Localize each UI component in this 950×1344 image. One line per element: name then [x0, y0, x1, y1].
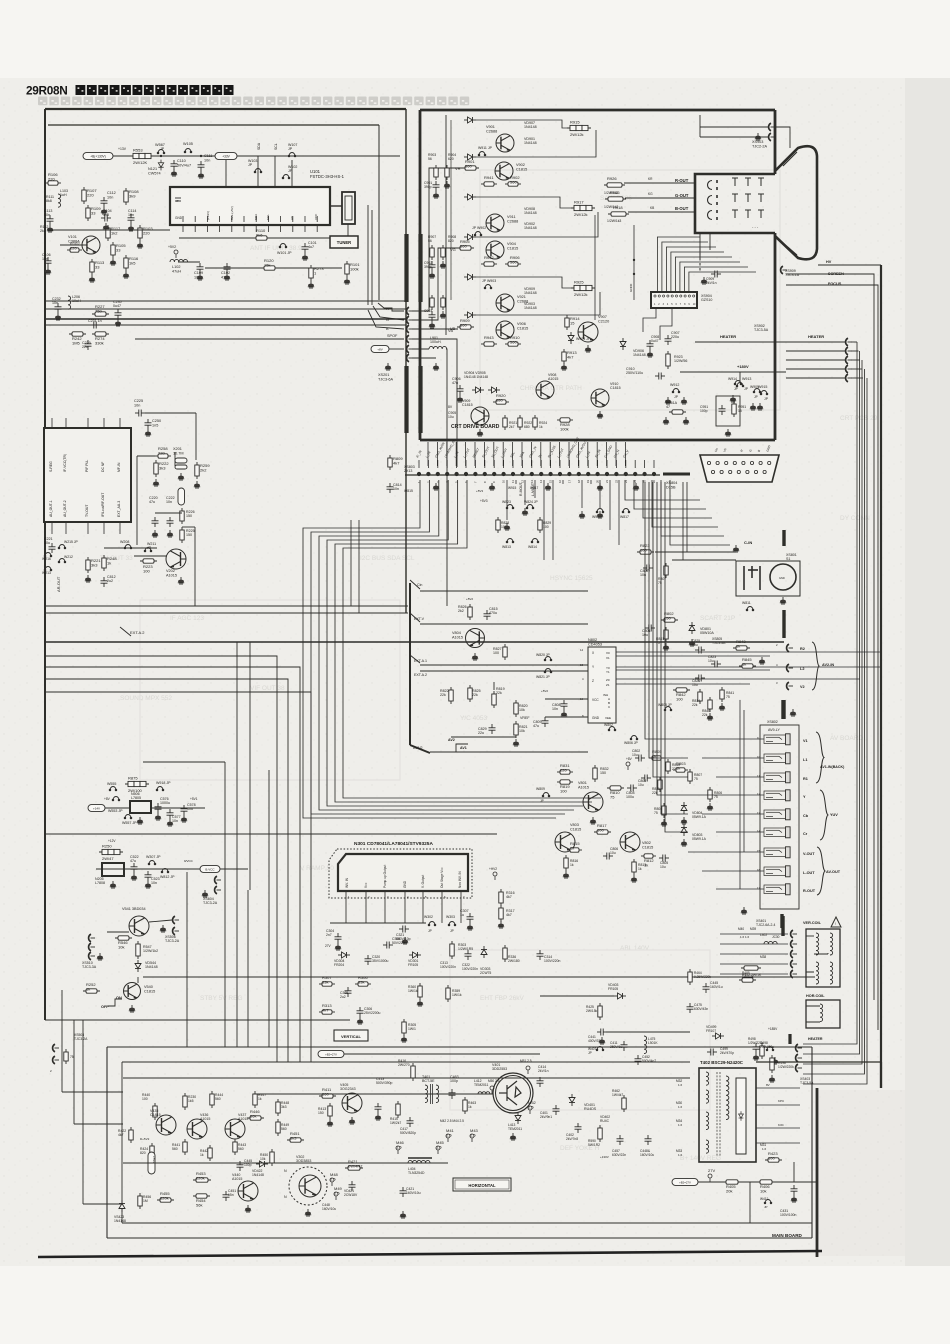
wire N205 rail — [96, 868, 200, 870]
capacitor C907 220u — [665, 335, 672, 345]
connector XS201 pin1 R — [407, 307, 413, 315]
ground R498 — [769, 1075, 775, 1082]
ground pin row a — [433, 483, 439, 490]
ground V910 — [597, 411, 603, 418]
jumper W812 — [161, 869, 169, 873]
wire XS903 2 — [700, 136, 768, 138]
svg-text:11: 11 — [757, 774, 760, 778]
resistor R442 1k — [208, 1145, 212, 1161]
transistor V906 C1815 — [496, 321, 514, 339]
capacitor C445 100p — [237, 1161, 244, 1171]
AV-OUT brace — [817, 847, 825, 895]
resistor R843 1k — [733, 639, 750, 650]
vertical feeds x740 x744 — [740, 700, 744, 889]
capacitor C221 10u — [49, 543, 56, 553]
CRT drive board top edge — [420, 109, 775, 112]
ground vd803 — [681, 839, 687, 846]
svg-text:R2: R2 — [800, 647, 805, 651]
ground C808 — [561, 710, 567, 717]
heater bus to xs403 — [803, 1005, 867, 1084]
T402 primary w2 — [706, 1090, 709, 1103]
capacitor C804 100u — [627, 785, 637, 792]
resistor R829 100 — [538, 517, 542, 533]
svg-text:L10247uH: L10247uH — [172, 265, 181, 273]
funnel break mark bottom — [783, 243, 797, 255]
HV bus heavy vertical — [880, 265, 882, 1088]
resistor R922 680 — [518, 415, 522, 430]
flyback core dashes — [717, 1072, 720, 1156]
svg-text:PIF PLL: PIF PLL — [85, 460, 89, 472]
ground xs403 — [772, 1057, 778, 1064]
capacitor C801 10u — [645, 625, 655, 632]
diode VD544 1N4148 — [135, 960, 141, 972]
long bus y977 — [143, 976, 815, 978]
svg-text:AV2-IN: AV2-IN — [822, 663, 834, 667]
svg-text:XS802: XS802 — [767, 720, 778, 724]
capacitor C463 100p — [449, 1089, 456, 1099]
resistor R801 75 — [664, 627, 668, 642]
connector XS403 pin2 — [796, 1054, 802, 1062]
connector XS604 pin1 — [215, 876, 221, 884]
capacitor C452 500V/4n7 — [635, 1055, 642, 1065]
svg-text:VB: VB — [450, 326, 456, 331]
svg-text:Z1: Z1 — [606, 683, 610, 687]
connector XS909 — [781, 266, 787, 274]
wire drive y1094 — [253, 1093, 493, 1095]
connector XS503 pin1 — [53, 1044, 59, 1052]
wire V202 base — [134, 555, 167, 557]
VER coil winding a — [816, 933, 819, 955]
AV2-IN brace — [812, 642, 819, 690]
resistor R827 100 — [503, 644, 507, 660]
resistor R455 820k — [157, 1191, 174, 1202]
jumper W823 — [506, 505, 514, 509]
svg-text:+5V2: +5V2 — [541, 689, 548, 693]
wire standby vertical x187 — [186, 872, 188, 1047]
capacitor C908 0u47 — [647, 340, 654, 350]
CRT drive board right edge upper — [774, 110, 777, 174]
RCA jack Cb — [764, 809, 790, 820]
svg-text:IF AGC 123: IF AGC 123 — [170, 615, 204, 622]
wire 14V rail — [105, 807, 130, 809]
wire flyback hv — [756, 1061, 881, 1063]
transistor V911 C2688 — [486, 214, 504, 232]
wire x201 left — [137, 455, 155, 457]
svg-text:HEATER: HEATER — [808, 334, 824, 339]
capacitor bias y158 — [433, 181, 440, 191]
wire y1163 long — [123, 1162, 448, 1164]
long bus y834 — [45, 833, 497, 835]
capacitor C314 100V/220n — [537, 950, 544, 960]
ground under C114 — [128, 224, 134, 231]
ground pin row b — [489, 483, 495, 490]
svg-text:R553: R553 — [133, 148, 143, 153]
svg-text:W553 JP: W553 JP — [108, 809, 123, 813]
resistor R416 2W/270 — [411, 1063, 415, 1081]
capacitor C106 10n — [45, 257, 52, 267]
svg-text:W915: W915 — [508, 486, 517, 490]
svg-text:Y1: Y1 — [606, 670, 610, 674]
jack pin numbers — [757, 736, 761, 890]
connector XS403 pin1 — [796, 1044, 802, 1052]
resistor R806 75 — [708, 787, 712, 802]
RCA jack V1 — [764, 734, 790, 745]
capacitor C322 cap — [465, 950, 472, 960]
capacitor C807 10n — [643, 565, 653, 572]
jumper W817 — [622, 509, 630, 513]
RCA jack V-OUT — [764, 847, 790, 858]
wire G-OUT — [625, 197, 695, 199]
N301 IC solid outline — [338, 854, 468, 891]
svg-text:17: 17 — [757, 886, 761, 890]
svg-text:W823: W823 — [502, 500, 511, 504]
svg-text:ABL 140V: ABL 140V — [620, 945, 650, 952]
ground XS506 — [160, 925, 166, 932]
L wire row679 — [45, 679, 288, 1062]
ground bus bottom — [122, 1222, 812, 1224]
svg-text:+B(+130V): +B(+130V) — [90, 155, 105, 159]
ground XS510 — [97, 953, 103, 960]
capacitor C441 400V/330n — [597, 1029, 607, 1036]
resistor R103 220 — [138, 225, 154, 241]
wire V541 collector right — [149, 920, 172, 922]
svg-text:8V: 8V — [766, 1083, 770, 1087]
resistor R454 56k — [193, 1194, 210, 1208]
resistor R105 33 — [111, 242, 127, 258]
resistor R590 5W/1R2 — [598, 1125, 602, 1142]
capacitor C413 cap — [375, 1103, 382, 1113]
flyback output wires — [756, 1088, 800, 1143]
svg-text:STBY 5V REG: STBY 5V REG — [200, 995, 243, 1002]
svg-text:Cb: Cb — [803, 814, 809, 818]
inductor L206 10uH — [68, 296, 71, 309]
resistor R313 4k7 — [319, 1003, 335, 1014]
svg-text:L2: L2 — [800, 667, 804, 671]
resistor R464 0.25W/220k — [688, 969, 692, 985]
ground N301 gnd pin — [402, 937, 408, 944]
svg-text:2W/12k: 2W/12k — [570, 132, 584, 137]
wire bottom 27v — [698, 1181, 726, 1183]
inductor L901 100uH — [429, 346, 447, 349]
XS804 pins two rows — [707, 461, 770, 473]
svg-text:VCC: VCC — [592, 698, 599, 702]
svg-text:13: 13 — [580, 663, 584, 667]
resistor R921 2k7 — [503, 415, 507, 430]
resistor R810 75 — [607, 786, 624, 800]
heater wire 3 — [851, 359, 860, 361]
svg-text:R917: R917 — [574, 200, 584, 205]
ground XS801 — [780, 597, 786, 604]
svg-text:W105: W105 — [183, 142, 193, 146]
capacitor C431 100V/100n — [791, 1185, 798, 1195]
transistor V435 C1815 — [156, 1115, 176, 1135]
XS803 bus line — [405, 474, 660, 476]
wire u101 y238 — [179, 237, 256, 239]
capacitor C802 10u — [635, 755, 645, 762]
ground under C230 — [115, 319, 121, 326]
ground r846 — [707, 713, 713, 720]
svg-text:VEE: VEE — [605, 716, 611, 720]
ground V909 — [477, 429, 483, 436]
N301 rotated pin names — [345, 865, 462, 888]
capacitor C250 1n5 — [145, 419, 152, 429]
svg-text:VD4221N4148: VD4221N4148 — [252, 1169, 264, 1177]
FOCUS wire — [786, 285, 878, 1030]
V401 transistor symbol inside — [499, 1081, 521, 1105]
connector XS510 pin1 — [89, 934, 95, 942]
capacitor C229 22u — [85, 340, 92, 350]
resistor R816 1k — [564, 855, 568, 871]
svg-text:W802: W802 — [604, 723, 613, 727]
connector AV2 pin3 — [787, 682, 793, 690]
capacitor C101 4u7 — [302, 243, 309, 253]
U101 pin stubs and inner marks — [183, 216, 317, 232]
svg-text:YUV: YUV — [830, 813, 838, 817]
main board right heavy edge — [816, 1088, 819, 1257]
svg-text:1.6: 1.6 — [678, 1123, 683, 1127]
svg-text:MF-IN: MF-IN — [117, 462, 121, 472]
connector XS903 pin1 — [769, 123, 775, 131]
svg-text:EXT.A.2: EXT.A.2 — [414, 673, 427, 677]
jumper W302 — [428, 922, 436, 926]
connector XS401 pin4 — [791, 960, 797, 968]
diode VD303 2CW75 — [481, 946, 487, 958]
wire vref row — [451, 736, 516, 738]
svg-text:22: 22 — [614, 479, 618, 483]
svg-text:GND: GND — [779, 576, 785, 580]
svg-text:+12V: +12V — [108, 839, 116, 843]
svg-text:+5V2: +5V2 — [466, 597, 473, 601]
wire standby vertical x248 — [247, 890, 249, 1047]
resistor R822 22k — [449, 687, 453, 704]
jumper W208 — [124, 545, 132, 549]
driver transformer T401 BCT-5E — [425, 1084, 439, 1104]
page bottom edge line — [38, 1251, 822, 1257]
wire L901 down — [446, 349, 447, 606]
resistor R942 — [481, 255, 497, 266]
svg-text:- - -: - - - — [752, 224, 759, 229]
XS401 connector bar — [780, 914, 783, 928]
svg-text:14: 14 — [757, 829, 761, 833]
ground C307 — [467, 923, 473, 930]
wire standby vertical x225 — [224, 983, 226, 1047]
resistor R440 100 — [153, 1103, 157, 1120]
heater bus vertical 1 — [856, 342, 858, 1005]
svg-text:X0: X0 — [606, 651, 610, 655]
ground under R259 — [194, 481, 200, 488]
svg-text:W817: W817 — [530, 486, 539, 490]
jumper W814 — [531, 539, 539, 543]
transistor V436 A1015 — [187, 1119, 207, 1139]
resistor R828 100 — [496, 517, 500, 533]
diode internal HV — [739, 1111, 744, 1121]
connector XS401 pin5 — [791, 970, 797, 978]
svg-text:V2: V2 — [800, 685, 805, 689]
resistor R101 100k — [345, 261, 361, 277]
svg-text:W557 JP: W557 JP — [122, 821, 137, 825]
XS904 pin numbers — [654, 303, 696, 306]
capacitor C448b 160V/10u — [645, 1135, 652, 1145]
ground C421 — [400, 1211, 406, 1218]
svg-text:C902390p: C902390p — [424, 261, 432, 269]
CRT drive board bottom edge — [420, 439, 775, 442]
main board inner left — [121, 1062, 123, 1223]
capacitor C821 10u — [695, 675, 705, 682]
bus wire y325 — [45, 324, 406, 326]
M48 testpoint — [330, 1178, 334, 1186]
ground under R101 — [344, 277, 350, 284]
svg-text:L402: L402 — [760, 933, 767, 937]
ground V540 — [129, 1005, 135, 1012]
resistor R831 220 — [557, 763, 573, 774]
AV2-IN connector bar segments — [782, 530, 785, 719]
svg-text:75: 75 — [70, 1055, 74, 1059]
ground C523 — [145, 881, 151, 888]
svg-text:2W/12K: 2W/12K — [133, 160, 148, 165]
resistor R405 20k — [723, 1180, 741, 1194]
resistor R452 2W/1K — [741, 966, 761, 970]
B.VCC pill — [200, 866, 220, 873]
resistor R928 100k — [557, 418, 573, 432]
jumper W914 — [734, 381, 742, 385]
left section box right edge — [405, 109, 407, 613]
EXT.A1 wire — [420, 664, 588, 666]
resistor R447 1k — [253, 1091, 257, 1108]
left section box top edge — [45, 108, 406, 110]
transistor V101 C388A — [82, 236, 100, 254]
svg-text:CHROMA CTR PATH: CHROMA CTR PATH — [520, 385, 582, 392]
vertical yoke box — [806, 929, 840, 987]
EXT wires from left to AV section — [0, 0, 1, 1]
ground C306 — [357, 1017, 363, 1024]
svg-text:C903: C903 — [424, 309, 432, 313]
N201 bottom pin stubs — [52, 522, 120, 534]
transistor V302 dashed circle — [289, 1167, 327, 1205]
ground under C102 — [224, 273, 230, 280]
svg-text:10: 10 — [502, 479, 506, 483]
capacitor C112 10n — [101, 197, 108, 207]
svg-text:HSYNC 15625: HSYNC 15625 — [550, 575, 593, 582]
wire r406 node down — [749, 1182, 751, 1223]
resistor R951 15 — [732, 401, 736, 417]
HOT V401 3DD2553 double circle — [493, 1073, 533, 1113]
diode VD907 1N4148 — [464, 117, 476, 123]
transistor V437 A1015 — [225, 1119, 245, 1139]
IC U101 FSTDC-3H3-HS-1 box — [170, 187, 330, 225]
resistor R825 22k — [468, 685, 472, 702]
wire +33V down — [225, 160, 227, 191]
resistor R808 75 — [662, 803, 666, 818]
jumper W916b — [596, 509, 604, 513]
svg-text:C907220u: C907220u — [671, 331, 680, 339]
bundle x683 687 — [683, 482, 687, 560]
connector XS506 pin2 — [173, 927, 179, 935]
ground VD801 — [689, 639, 695, 646]
capacitor bias y288 — [429, 311, 436, 321]
left bus verticals x351 x359 — [351, 520, 359, 613]
jumper W216 — [44, 553, 52, 557]
resistor R444 560 — [210, 1091, 214, 1108]
svg-text:W212: W212 — [64, 555, 73, 559]
jack feed wires from bus — [688, 739, 764, 889]
XS904 GZS10 connector box — [651, 292, 697, 308]
svg-text:18: 18 — [577, 479, 581, 483]
TUNER box — [330, 236, 358, 248]
svg-text:V1: V1 — [803, 739, 808, 743]
connector XS401 pin3 — [791, 950, 797, 958]
VER coil winding b — [830, 933, 833, 955]
M45 testpoint — [436, 1146, 440, 1154]
capacitor C812 2u2 — [101, 577, 108, 587]
capacitor C825 10u — [695, 647, 705, 654]
resistor R306 33k — [355, 975, 371, 986]
svg-text:EHT FBP 26kV: EHT FBP 26kV — [480, 995, 524, 1002]
svg-text:M42 2.5 M44 2.5: M42 2.5 M44 2.5 — [440, 1119, 464, 1123]
svg-text:JP: JP — [734, 387, 738, 391]
svg-text:R926: R926 — [607, 176, 617, 181]
ground R801 — [663, 643, 669, 650]
svg-text:TV-OUT: TV-OUT — [85, 505, 89, 517]
RCA jack Cr — [764, 827, 790, 838]
snubber box C951 R951 — [716, 396, 740, 426]
capacitor bias y238 — [429, 261, 436, 271]
resistor R230 1k5 — [183, 1093, 187, 1110]
connector AV2 pin1 — [787, 644, 793, 652]
svg-text:G-OUT: G-OUT — [675, 193, 689, 198]
svg-text:VD5441N4148: VD5441N4148 — [145, 961, 158, 969]
resistor bias b y288 — [441, 295, 445, 310]
svg-text:W817: W817 — [620, 515, 629, 519]
L wire row667 — [45, 667, 300, 1062]
bus wire y309 — [45, 308, 406, 310]
resistor R913 4k7 — [562, 349, 578, 364]
resistor R415 1W/2k7 — [396, 1101, 400, 1118]
capacitor C232 10n — [55, 303, 62, 313]
svg-text:W216: W216 — [42, 557, 51, 561]
wire C225 right — [145, 412, 196, 414]
wire b2 right — [344, 1053, 540, 1055]
resistor R914 15 — [565, 315, 581, 330]
ground pin row c — [545, 483, 551, 490]
svg-text:JP: JP — [428, 929, 432, 933]
wire BVCC right — [220, 868, 248, 870]
transistor V405 3OG2343 — [342, 1093, 362, 1113]
ground V803 — [563, 871, 569, 878]
capacitor C102 470u — [224, 263, 231, 273]
ground bias b y158 — [444, 181, 450, 188]
XS904 lower stub wires — [595, 215, 672, 340]
svg-text:1.6: 1.6 — [762, 1147, 767, 1151]
ground under C220 — [152, 530, 158, 537]
capacitor C113 10n — [47, 215, 54, 225]
XS804 D15B shell — [700, 455, 779, 482]
ground C441 — [599, 1037, 605, 1044]
ground V405 — [349, 1117, 355, 1124]
svg-text:Pump up Output: Pump up Output — [383, 865, 387, 888]
capacitor C823 10u — [711, 661, 721, 668]
resistor R109 33 — [86, 205, 102, 221]
HV wire — [818, 264, 881, 266]
ground under V202 — [178, 577, 184, 584]
transistor V910 C1815 — [591, 389, 609, 407]
long bus y606 — [45, 605, 408, 607]
svg-text:+B2=27V: +B2=27V — [679, 1181, 691, 1185]
svg-text:+HV2: +HV2 — [489, 867, 497, 871]
wire funnel top entry — [774, 127, 790, 148]
resistor R905 560 — [457, 239, 474, 250]
ground under C112 — [101, 207, 107, 214]
heater wire 5 — [851, 377, 863, 379]
